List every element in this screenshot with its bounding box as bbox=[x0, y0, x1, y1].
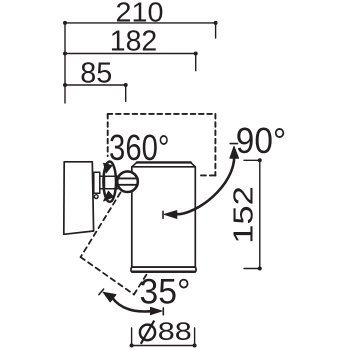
rotation arrowhead top bbox=[104, 163, 112, 173]
svg-text:182: 182 bbox=[110, 25, 158, 57]
knob slot upper line bbox=[117, 177, 138, 179]
rotation ellipse arrow 360 bbox=[103, 162, 116, 202]
dashed rectangle: luminaire rotated up 90 deg, top edge bbox=[108, 113, 215, 115]
wall mount plate bbox=[64, 162, 94, 235]
dimension line phi88 bbox=[132, 345, 195, 347]
svg-text:90°: 90° bbox=[236, 120, 287, 161]
dimension line 152 bbox=[259, 160, 261, 268]
rim bottom thick line bbox=[132, 271, 195, 273]
dimension line 210 bbox=[65, 22, 216, 24]
spotlight cylinder body bbox=[132, 167, 196, 267]
dashed tilted body edge lower right bbox=[134, 275, 147, 295]
dim 182 right extension tick bbox=[195, 54, 197, 71]
spotlight cylinder bottom rim bbox=[131, 267, 196, 272]
dashed tilted body bottom edge bbox=[81, 257, 134, 294]
90 reference tick horizontal bbox=[230, 143, 237, 145]
pivot arm bbox=[100, 176, 118, 189]
knob slot lower line bbox=[117, 184, 138, 186]
35 deg tilt arc arrow bbox=[112, 298, 151, 312]
pivot arm divider bbox=[104, 176, 106, 189]
dashed rectangle bottom edge (partial) bbox=[201, 174, 215, 176]
cap top thick line bbox=[137, 161, 191, 163]
90 arc arrowhead left bbox=[164, 211, 177, 219]
mount bracket bbox=[94, 172, 100, 193]
dim 152 top tick bbox=[244, 159, 260, 161]
90 deg swing arc arrow bbox=[177, 156, 235, 214]
90 reference tick vertical bbox=[162, 211, 164, 218]
dashed rectangle left edge bbox=[107, 114, 109, 156]
svg-text:85: 85 bbox=[80, 58, 112, 90]
dimension line 85 bbox=[65, 84, 126, 86]
35 reference tick right bbox=[162, 308, 164, 315]
adjuster knob bbox=[117, 171, 138, 192]
dim 210 right extension tick bbox=[215, 23, 217, 38]
svg-text:88: 88 bbox=[158, 318, 192, 346]
svg-text:210: 210 bbox=[116, 0, 164, 28]
dashed tilted body edge upper bbox=[81, 193, 121, 258]
phi88 right tick bbox=[194, 328, 196, 346]
svg-text:360°: 360° bbox=[109, 127, 170, 168]
spotlight cylinder top cap bbox=[132, 162, 196, 167]
phi88 left tick bbox=[131, 328, 133, 346]
dim 85 end dots bbox=[63, 83, 67, 87]
label phi 88 : phi symbol drawn as shapes bbox=[140, 321, 155, 344]
35 arc arrowhead right bbox=[151, 307, 162, 314]
svg-text:152: 152 bbox=[227, 186, 258, 244]
dim 210 end dots bbox=[63, 21, 67, 25]
dimension line 182 bbox=[65, 53, 196, 55]
svg-text:35°: 35° bbox=[140, 272, 191, 312]
dim 85 right extension tick bbox=[125, 85, 127, 101]
90 arc arrowhead top bbox=[230, 146, 239, 158]
dashed rectangle right edge bbox=[214, 114, 216, 175]
rotation arrowhead bottom bbox=[104, 191, 114, 201]
35 reference tick left bbox=[99, 289, 104, 295]
phi88 end dots bbox=[130, 344, 134, 348]
35 arc arrowhead left bbox=[103, 292, 116, 302]
left extension line bbox=[64, 23, 66, 103]
dim 182 end dots bbox=[63, 52, 67, 56]
bracket screw bbox=[94, 195, 98, 199]
dim 152 end dots bbox=[258, 158, 262, 162]
dim 152 bottom tick bbox=[244, 268, 260, 270]
